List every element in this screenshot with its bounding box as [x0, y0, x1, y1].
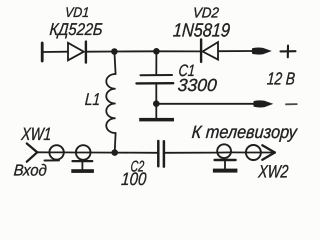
wire C1 bottom lead	[155, 84, 157, 101]
svg-text:L1: L1	[84, 90, 101, 109]
diode VD2	[201, 39, 218, 62]
label C2	[130, 159, 145, 176]
label L1	[84, 90, 101, 109]
wire	[219, 50, 258, 52]
wire	[165, 152, 217, 154]
connector XW2 shield circle with ground	[215, 144, 236, 160]
wire	[87, 51, 114, 53]
connector XW1 plug fork	[27, 144, 37, 162]
connector shield circle with ground	[73, 145, 93, 161]
capacitor C1	[137, 75, 174, 83]
svg-text:100: 100	[121, 169, 147, 189]
svg-text:VD1: VD1	[65, 4, 90, 20]
wire C1 top lead	[155, 51, 157, 74]
svg-text:12 В: 12 В	[266, 68, 296, 88]
capacitor C2	[158, 141, 164, 167]
wire	[44, 51, 69, 53]
svg-text:Вход: Вход	[13, 163, 47, 180]
label VD2	[192, 6, 219, 22]
wire	[156, 50, 200, 52]
label C1	[178, 61, 196, 80]
node junction VD1/L1	[111, 48, 118, 55]
label 1N5819	[172, 21, 231, 42]
wire	[114, 50, 156, 52]
node junction C1 top	[153, 48, 160, 55]
wire L1 bottom lead	[114, 133, 117, 153]
label 12 В	[266, 68, 296, 88]
svg-text:КД522Б: КД522Б	[49, 20, 103, 39]
wire	[64, 151, 76, 153]
label XW2	[257, 162, 289, 182]
ground below XW1	[71, 161, 94, 173]
arrow -12V supply	[253, 100, 273, 107]
label К телевизору	[191, 122, 298, 142]
wire L1 top lead	[114, 52, 115, 75]
label minus	[286, 103, 297, 105]
label Вход	[13, 163, 47, 180]
ground below C1	[139, 104, 174, 122]
wire	[37, 151, 49, 153]
ground below XW2	[213, 160, 238, 173]
svg-text:VD2: VD2	[192, 6, 219, 22]
node junction L1/C2	[111, 149, 118, 156]
inductor L1	[106, 74, 115, 133]
connector XW2 plug arrow	[262, 145, 275, 160]
label 3300	[177, 75, 218, 95]
svg-text:XW1: XW1	[20, 124, 52, 144]
wire	[231, 151, 246, 153]
svg-text:1N5819: 1N5819	[172, 21, 231, 42]
label 100	[121, 169, 147, 189]
connector XW2 socket circle	[246, 145, 275, 160]
svg-text:XW2: XW2	[257, 162, 289, 182]
svg-text:3300: 3300	[177, 75, 218, 95]
terminal left	[41, 43, 44, 61]
node junction C1 bottom	[153, 100, 160, 107]
wire	[115, 152, 157, 154]
arrow +12V supply	[252, 47, 272, 54]
wire middle rail	[159, 103, 258, 105]
label КД522Б	[49, 20, 103, 39]
connector XW1 socket circle	[45, 145, 64, 160]
svg-text:К телевизору: К телевизору	[191, 122, 298, 142]
diode VD1	[68, 42, 86, 63]
label XW1	[20, 124, 52, 144]
label +	[281, 46, 296, 58]
label VD1	[65, 4, 90, 20]
wire	[91, 152, 115, 154]
